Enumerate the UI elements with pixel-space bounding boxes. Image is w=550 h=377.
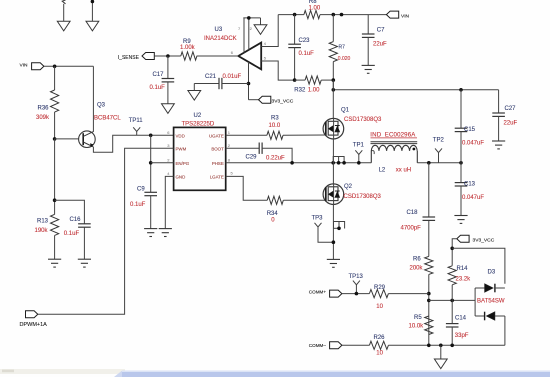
svg-text:U3: U3 — [215, 27, 223, 33]
svg-text:C14: C14 — [455, 316, 467, 322]
wire LGATE — [226, 176, 268, 200]
pin name EN/PG — [176, 161, 190, 166]
junction — [340, 13, 344, 17]
junction — [53, 198, 57, 202]
value 0.1uF — [299, 51, 315, 57]
wire — [452, 239, 457, 266]
junction — [247, 82, 251, 86]
pin name PWM — [176, 146, 187, 151]
value 4700pF — [401, 225, 422, 231]
node VIN junction — [53, 65, 57, 69]
resistor R29 — [369, 290, 428, 298]
svg-text:C23: C23 — [299, 38, 311, 44]
wire PHSE — [226, 162, 372, 164]
junction — [357, 161, 361, 165]
wire top rail — [278, 14, 386, 16]
svg-text:Q3: Q3 — [97, 103, 106, 109]
wire — [342, 293, 370, 295]
value 22uF — [373, 41, 387, 47]
svg-text:0.047uF: 0.047uF — [462, 195, 484, 201]
svg-text:309k: 309k — [36, 115, 50, 121]
junction — [427, 292, 431, 296]
svg-text:R14: R14 — [457, 266, 469, 272]
label Q2 — [344, 184, 353, 190]
ground — [162, 104, 175, 114]
svg-text:0.1uF: 0.1uF — [150, 85, 166, 91]
value 1.00 — [308, 88, 320, 94]
ground — [454, 216, 467, 224]
pin number 4 — [264, 41, 267, 46]
pin name GND — [176, 175, 186, 180]
power flag 3V3_VCC — [259, 96, 271, 103]
power flag DPWM+1A — [26, 311, 38, 318]
ground — [57, 21, 70, 31]
svg-text:0.22uF: 0.22uF — [266, 156, 285, 162]
net label 3V3_VCC — [473, 237, 495, 243]
op-amp U3 — [238, 43, 261, 70]
IC U2 body — [174, 127, 226, 190]
label C7 — [377, 27, 385, 33]
value 10.0 — [269, 123, 281, 129]
wire Q1-Q2 rail — [332, 139, 334, 184]
svg-text:LGATE: LGATE — [210, 175, 224, 180]
test point TP13 — [353, 281, 360, 294]
svg-text:R8: R8 — [309, 0, 317, 5]
label R34 — [267, 211, 279, 217]
transistor Q2 — [323, 184, 344, 205]
ground — [434, 359, 447, 369]
label C27 — [505, 106, 517, 112]
svg-text:VIN: VIN — [20, 63, 29, 69]
wire — [167, 56, 169, 79]
value 0.1uF — [64, 231, 80, 237]
junction — [427, 344, 431, 348]
label C16 — [70, 217, 82, 223]
svg-text:R29: R29 — [374, 285, 386, 291]
junction — [427, 299, 431, 303]
svg-text:10: 10 — [376, 351, 383, 357]
power flag I_SENSE — [142, 53, 154, 60]
label C13 — [464, 182, 476, 188]
wire — [504, 316, 506, 345]
pin number 6 — [167, 130, 170, 135]
junction — [337, 227, 341, 231]
junction — [450, 344, 454, 348]
svg-text:23.2k: 23.2k — [456, 276, 472, 282]
node EN junction — [149, 161, 153, 165]
wire — [318, 234, 333, 242]
ground — [159, 229, 172, 237]
svg-text:CSD17308Q3: CSD17308Q3 — [344, 194, 382, 200]
junction — [332, 88, 336, 92]
inductor L2 — [371, 145, 417, 162]
junction — [91, 0, 95, 3]
value 0.22uF — [266, 156, 285, 162]
svg-text:U2: U2 — [194, 113, 202, 119]
power flag VIN — [386, 11, 398, 18]
resistor R36 — [51, 90, 59, 139]
wire +input — [261, 15, 278, 47]
svg-text:0.047uF: 0.047uF — [462, 141, 484, 147]
svg-text:3V3_VCC: 3V3_VCC — [473, 237, 495, 243]
resistor R32 — [295, 76, 334, 84]
svg-text:TP2: TP2 — [433, 138, 445, 144]
pin name BOOT — [211, 146, 224, 151]
power flag VIN — [32, 63, 44, 70]
label C29 — [246, 155, 258, 161]
junction — [342, 161, 346, 165]
net label DPWM+1A — [20, 322, 48, 328]
wire — [55, 200, 85, 224]
wire — [44, 65, 94, 67]
wire UGATE — [226, 134, 267, 136]
value BAT54SW — [477, 298, 505, 304]
label TP11 — [129, 118, 144, 124]
junction — [293, 78, 297, 82]
label R6 — [413, 257, 421, 263]
svg-text:CSD17308Q3: CSD17308Q3 — [344, 117, 382, 123]
junction — [293, 13, 297, 17]
wire — [150, 135, 152, 192]
power flag COMM- — [330, 342, 342, 349]
ground — [78, 259, 91, 267]
svg-text:C16: C16 — [70, 217, 82, 223]
value 0.047uF — [462, 141, 484, 147]
label U3 — [215, 27, 223, 33]
svg-text:TP3: TP3 — [312, 216, 324, 222]
svg-text:I_SENSE: I_SENSE — [118, 55, 140, 61]
junction — [332, 240, 336, 244]
value IND_EC00296A — [370, 132, 417, 139]
wire — [249, 99, 259, 101]
window edge blue — [114, 371, 550, 377]
test point TP11 — [133, 127, 140, 135]
ground — [144, 229, 157, 237]
pin number 1 — [228, 130, 231, 135]
pin number 2 — [167, 157, 170, 162]
inductor L2 core — [371, 142, 418, 144]
svg-text:GND: GND — [176, 175, 186, 180]
ground — [188, 84, 201, 101]
pin name UGATE — [209, 133, 224, 138]
label R3 — [271, 116, 279, 122]
capacitor C17 — [162, 79, 175, 104]
value xx uH — [396, 168, 411, 174]
svg-text:200k: 200k — [410, 265, 424, 271]
value 1.00k — [180, 45, 196, 51]
capacitor C9 — [144, 192, 157, 228]
svg-text:Q2: Q2 — [344, 184, 353, 190]
label R7 — [339, 45, 346, 51]
svg-text:190k: 190k — [35, 228, 49, 234]
svg-text:C18: C18 — [407, 210, 419, 216]
junction — [337, 161, 341, 165]
transistor Q1 — [323, 118, 344, 139]
resistor stub (cut off at top) — [62, 0, 65, 21]
label TP2 — [433, 138, 445, 144]
capacitor C27 — [492, 113, 505, 141]
svg-text:D3: D3 — [488, 270, 496, 276]
label R13 — [37, 219, 49, 225]
wire -input — [261, 61, 294, 80]
value CSD17308Q3 — [344, 194, 382, 200]
junction — [450, 299, 454, 303]
value 0.020 — [338, 56, 351, 62]
pin number 8 — [228, 157, 231, 162]
wire D3 bracket — [474, 288, 476, 316]
value INA214DCK — [204, 36, 237, 42]
junction — [355, 292, 359, 296]
wire supply bar — [243, 17, 260, 19]
svg-text:C13: C13 — [464, 182, 476, 188]
wire — [452, 248, 505, 283]
svg-text:0.1uF: 0.1uF — [299, 51, 315, 57]
junction — [450, 247, 454, 251]
label TP1 — [353, 143, 365, 149]
label C23 — [299, 38, 311, 44]
svg-text:10.0k: 10.0k — [409, 323, 425, 329]
label R9 — [183, 39, 191, 45]
svg-text:R36: R36 — [38, 106, 50, 112]
value 190k — [35, 228, 49, 234]
wire gnd stub — [260, 18, 262, 25]
label R5 — [414, 315, 422, 321]
label R29 — [374, 285, 386, 291]
wire GND pin — [165, 176, 173, 228]
svg-text:EN/PG: EN/PG — [176, 161, 190, 166]
power flag 3V3_VCC — [457, 235, 469, 242]
power flag COMM+ — [330, 290, 342, 297]
capacitor C15 — [455, 90, 468, 163]
junction — [439, 344, 443, 348]
wire — [294, 15, 296, 45]
label D3 — [488, 270, 496, 276]
svg-text:R26: R26 — [374, 335, 386, 341]
wire — [367, 15, 369, 34]
net tie — [333, 157, 344, 163]
svg-text:L2: L2 — [379, 168, 386, 174]
label Q1 — [341, 108, 350, 114]
label TP3 — [312, 216, 324, 222]
junction — [331, 161, 335, 165]
svg-text:C7: C7 — [377, 27, 385, 33]
svg-text:C27: C27 — [505, 106, 517, 112]
label R32 — [294, 88, 306, 94]
svg-text:10: 10 — [376, 304, 383, 310]
value 309k — [36, 115, 50, 121]
wire collector — [92, 66, 94, 132]
wire emitter — [93, 135, 173, 152]
capacitor C14 — [446, 300, 459, 345]
pin name VDD — [176, 133, 185, 138]
svg-text:R5: R5 — [414, 315, 422, 321]
label TP13 — [349, 274, 364, 280]
wire drain rail — [333, 89, 498, 91]
capacitor C21 — [194, 78, 248, 89]
svg-text:1.00: 1.00 — [308, 88, 320, 94]
ground — [492, 141, 505, 149]
label R26 — [374, 335, 386, 341]
transistor Q3 — [79, 131, 96, 148]
label R8 (clipped) — [309, 0, 317, 5]
value 200k — [410, 265, 424, 271]
wire — [91, 0, 93, 21]
ground — [48, 259, 61, 267]
capacitor C23 — [288, 44, 301, 80]
resistor R5 — [425, 316, 433, 335]
wire — [429, 299, 475, 301]
svg-text:R34: R34 — [267, 211, 279, 217]
wire — [38, 148, 174, 314]
svg-text:33pF: 33pF — [455, 333, 469, 339]
svg-text:1.00k: 1.00k — [180, 45, 196, 51]
svg-text:4700pF: 4700pF — [401, 225, 422, 231]
wire — [498, 90, 500, 113]
net label VIN — [20, 63, 29, 69]
node base junction — [53, 137, 57, 141]
resistor R3 — [267, 131, 326, 139]
value 0.1uF — [150, 85, 166, 91]
wire VOUT — [417, 162, 461, 164]
value 22uF — [504, 121, 518, 127]
ground — [254, 25, 267, 35]
window edge left — [0, 369, 125, 374]
junction — [459, 161, 463, 165]
pin number 4 — [167, 171, 170, 176]
svg-text:0.1uF: 0.1uF — [130, 202, 146, 208]
ground — [86, 21, 99, 31]
junction — [290, 161, 294, 165]
svg-text:Q1: Q1 — [341, 108, 350, 114]
net label 3V3_VCC — [272, 99, 294, 105]
pin number 2 — [250, 26, 253, 31]
wire supply pins — [244, 18, 249, 53]
label R14 — [457, 266, 469, 272]
net tie — [334, 222, 345, 229]
capacitor C7 — [362, 34, 375, 65]
label Q3 — [97, 103, 106, 109]
junction — [166, 54, 170, 58]
wire — [54, 139, 56, 215]
svg-text:BAT54SW: BAT54SW — [477, 298, 505, 304]
value 0.047uF — [462, 195, 484, 201]
label C15 — [464, 127, 476, 133]
wire Q2 source — [332, 205, 334, 260]
value 0.1uF — [130, 202, 146, 208]
value 33pF — [455, 333, 469, 339]
test point TP1 — [355, 150, 362, 163]
svg-text:C9: C9 — [137, 187, 145, 193]
svg-text:C29: C29 — [246, 155, 258, 161]
resistor R13 — [51, 214, 59, 259]
label C14 — [455, 316, 467, 322]
svg-text:1.00: 1.00 — [309, 5, 321, 11]
svg-text:C15: C15 — [464, 127, 476, 133]
svg-text:UGATE: UGATE — [209, 133, 224, 138]
value TPS28225D — [182, 122, 215, 128]
label C18 — [407, 210, 419, 216]
svg-text:TP11: TP11 — [129, 118, 144, 124]
capacitor C29 — [259, 143, 262, 154]
svg-text:xx uH: xx uH — [396, 168, 411, 174]
pin number 3 — [167, 143, 170, 148]
svg-text:3V3_VCC: 3V3_VCC — [272, 99, 294, 105]
svg-text:0.1uF: 0.1uF — [64, 231, 80, 237]
value CSD17308Q3 — [344, 117, 382, 123]
svg-text:0.020: 0.020 — [338, 56, 351, 62]
label C21 — [205, 74, 217, 80]
svg-text:R3: R3 — [271, 116, 279, 122]
wire — [55, 138, 79, 140]
wire — [332, 80, 334, 118]
pin name PHSE — [212, 161, 224, 166]
svg-text:VDD: VDD — [176, 133, 185, 138]
diode D3 top — [475, 284, 505, 293]
resistor R26 — [369, 341, 505, 349]
pin number 2 — [228, 143, 231, 148]
wire — [154, 55, 181, 57]
resistor R34 — [267, 196, 326, 204]
pin number 5 — [231, 171, 234, 176]
label C17 — [153, 72, 165, 78]
value 0.01uF — [223, 74, 242, 80]
wire — [428, 163, 430, 217]
svg-text:PHSE: PHSE — [212, 161, 224, 166]
wire — [440, 345, 442, 359]
resistor R6 — [425, 256, 433, 345]
capacitor C16 — [78, 224, 91, 259]
diode D3 bottom — [475, 312, 505, 321]
ground — [362, 65, 375, 73]
resistor R8 — [304, 11, 320, 19]
junction — [459, 88, 463, 92]
wire — [332, 15, 334, 42]
capacitor C13 — [455, 163, 468, 216]
svg-text:INA214DCK: INA214DCK — [204, 36, 237, 42]
svg-text:BOOT: BOOT — [211, 146, 224, 151]
label C9 — [137, 187, 145, 193]
junction — [427, 161, 431, 165]
pin number 7 — [238, 26, 241, 31]
svg-text:TPS28225D: TPS28225D — [182, 122, 215, 128]
svg-text:10.0: 10.0 — [269, 123, 281, 129]
svg-text:BCB47CL: BCB47CL — [94, 115, 121, 121]
label L2 — [379, 168, 386, 174]
capacitor C18 — [423, 217, 436, 256]
resistor R7 — [329, 42, 337, 90]
value 23.2k — [456, 276, 472, 282]
wire output — [197, 55, 239, 57]
wire BOOT — [226, 147, 260, 149]
net label COMM- — [309, 343, 327, 348]
wire — [262, 148, 292, 163]
net label VIN — [401, 14, 410, 20]
pin number 5 — [264, 55, 267, 60]
svg-text:C17: C17 — [153, 72, 165, 78]
svg-text:R32: R32 — [294, 88, 306, 94]
value 0 — [271, 217, 275, 223]
value 10.0k — [409, 323, 425, 329]
svg-text:R6: R6 — [413, 257, 421, 263]
svg-text:0.01uF: 0.01uF — [223, 74, 242, 80]
svg-text:22uF: 22uF — [373, 41, 387, 47]
junction — [332, 78, 336, 82]
junction — [332, 13, 336, 17]
phase dot — [413, 148, 416, 151]
wire — [54, 66, 56, 90]
svg-text:COMM–: COMM– — [309, 343, 327, 348]
svg-text:R13: R13 — [37, 219, 49, 225]
